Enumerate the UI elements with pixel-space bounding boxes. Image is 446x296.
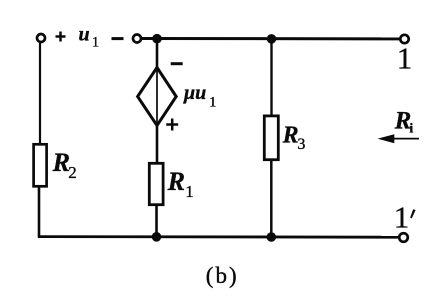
wire left branch upper bbox=[39, 42, 41, 144]
wire inside diamond bbox=[156, 69, 158, 124]
svg-text:R: R bbox=[52, 148, 70, 177]
svg-text:u: u bbox=[79, 24, 90, 46]
wire R1 to bottom rail bbox=[155, 205, 158, 237]
svg-text:1: 1 bbox=[92, 34, 100, 50]
terminal 1' (bottom-right open circle) bbox=[399, 233, 408, 242]
svg-text:R: R bbox=[282, 123, 299, 149]
svg-text:2: 2 bbox=[68, 163, 77, 182]
minus sign of u1 bbox=[112, 37, 124, 40]
svg-text:1: 1 bbox=[185, 182, 194, 201]
plus sign of u1 bbox=[56, 32, 66, 42]
svg-text:R: R bbox=[167, 167, 185, 196]
svg-text:3: 3 bbox=[297, 136, 305, 153]
plus sign of controlled source bbox=[166, 119, 178, 131]
wire bottom rail bbox=[38, 235, 400, 238]
wire left branch lower bbox=[38, 186, 41, 236]
svg-text:i: i bbox=[409, 121, 413, 136]
svg-text:1: 1 bbox=[209, 94, 217, 110]
controlled source u=mu*u1 (diamond) bbox=[138, 68, 177, 126]
resistor R1 bbox=[149, 163, 163, 204]
minus sign of controlled source bbox=[171, 62, 183, 65]
wire top rail bbox=[142, 37, 401, 40]
terminal + of u1 (top-left open circle) bbox=[37, 34, 45, 42]
node junction bottom middle bbox=[152, 232, 162, 242]
svg-text:(b): (b) bbox=[206, 263, 239, 288]
arrow Ri pointing left bbox=[378, 134, 420, 143]
resistor R2 bbox=[34, 144, 47, 186]
wire R3 to bottom rail bbox=[270, 160, 273, 237]
svg-text:μu: μu bbox=[183, 82, 206, 104]
svg-text:1: 1 bbox=[394, 200, 410, 235]
wire right branch upper bbox=[270, 39, 272, 117]
node junction top right bbox=[267, 34, 277, 44]
node junction top middle bbox=[152, 34, 162, 44]
terminal 1 (top-right open circle) bbox=[400, 35, 408, 43]
node junction bottom right bbox=[267, 232, 277, 242]
svg-text:1: 1 bbox=[397, 41, 413, 76]
resistor R3 bbox=[264, 116, 278, 160]
wire source to R1 bbox=[156, 125, 159, 164]
terminal - of u1 (second open circle) bbox=[133, 35, 141, 43]
wire middle branch to source bbox=[156, 39, 159, 69]
